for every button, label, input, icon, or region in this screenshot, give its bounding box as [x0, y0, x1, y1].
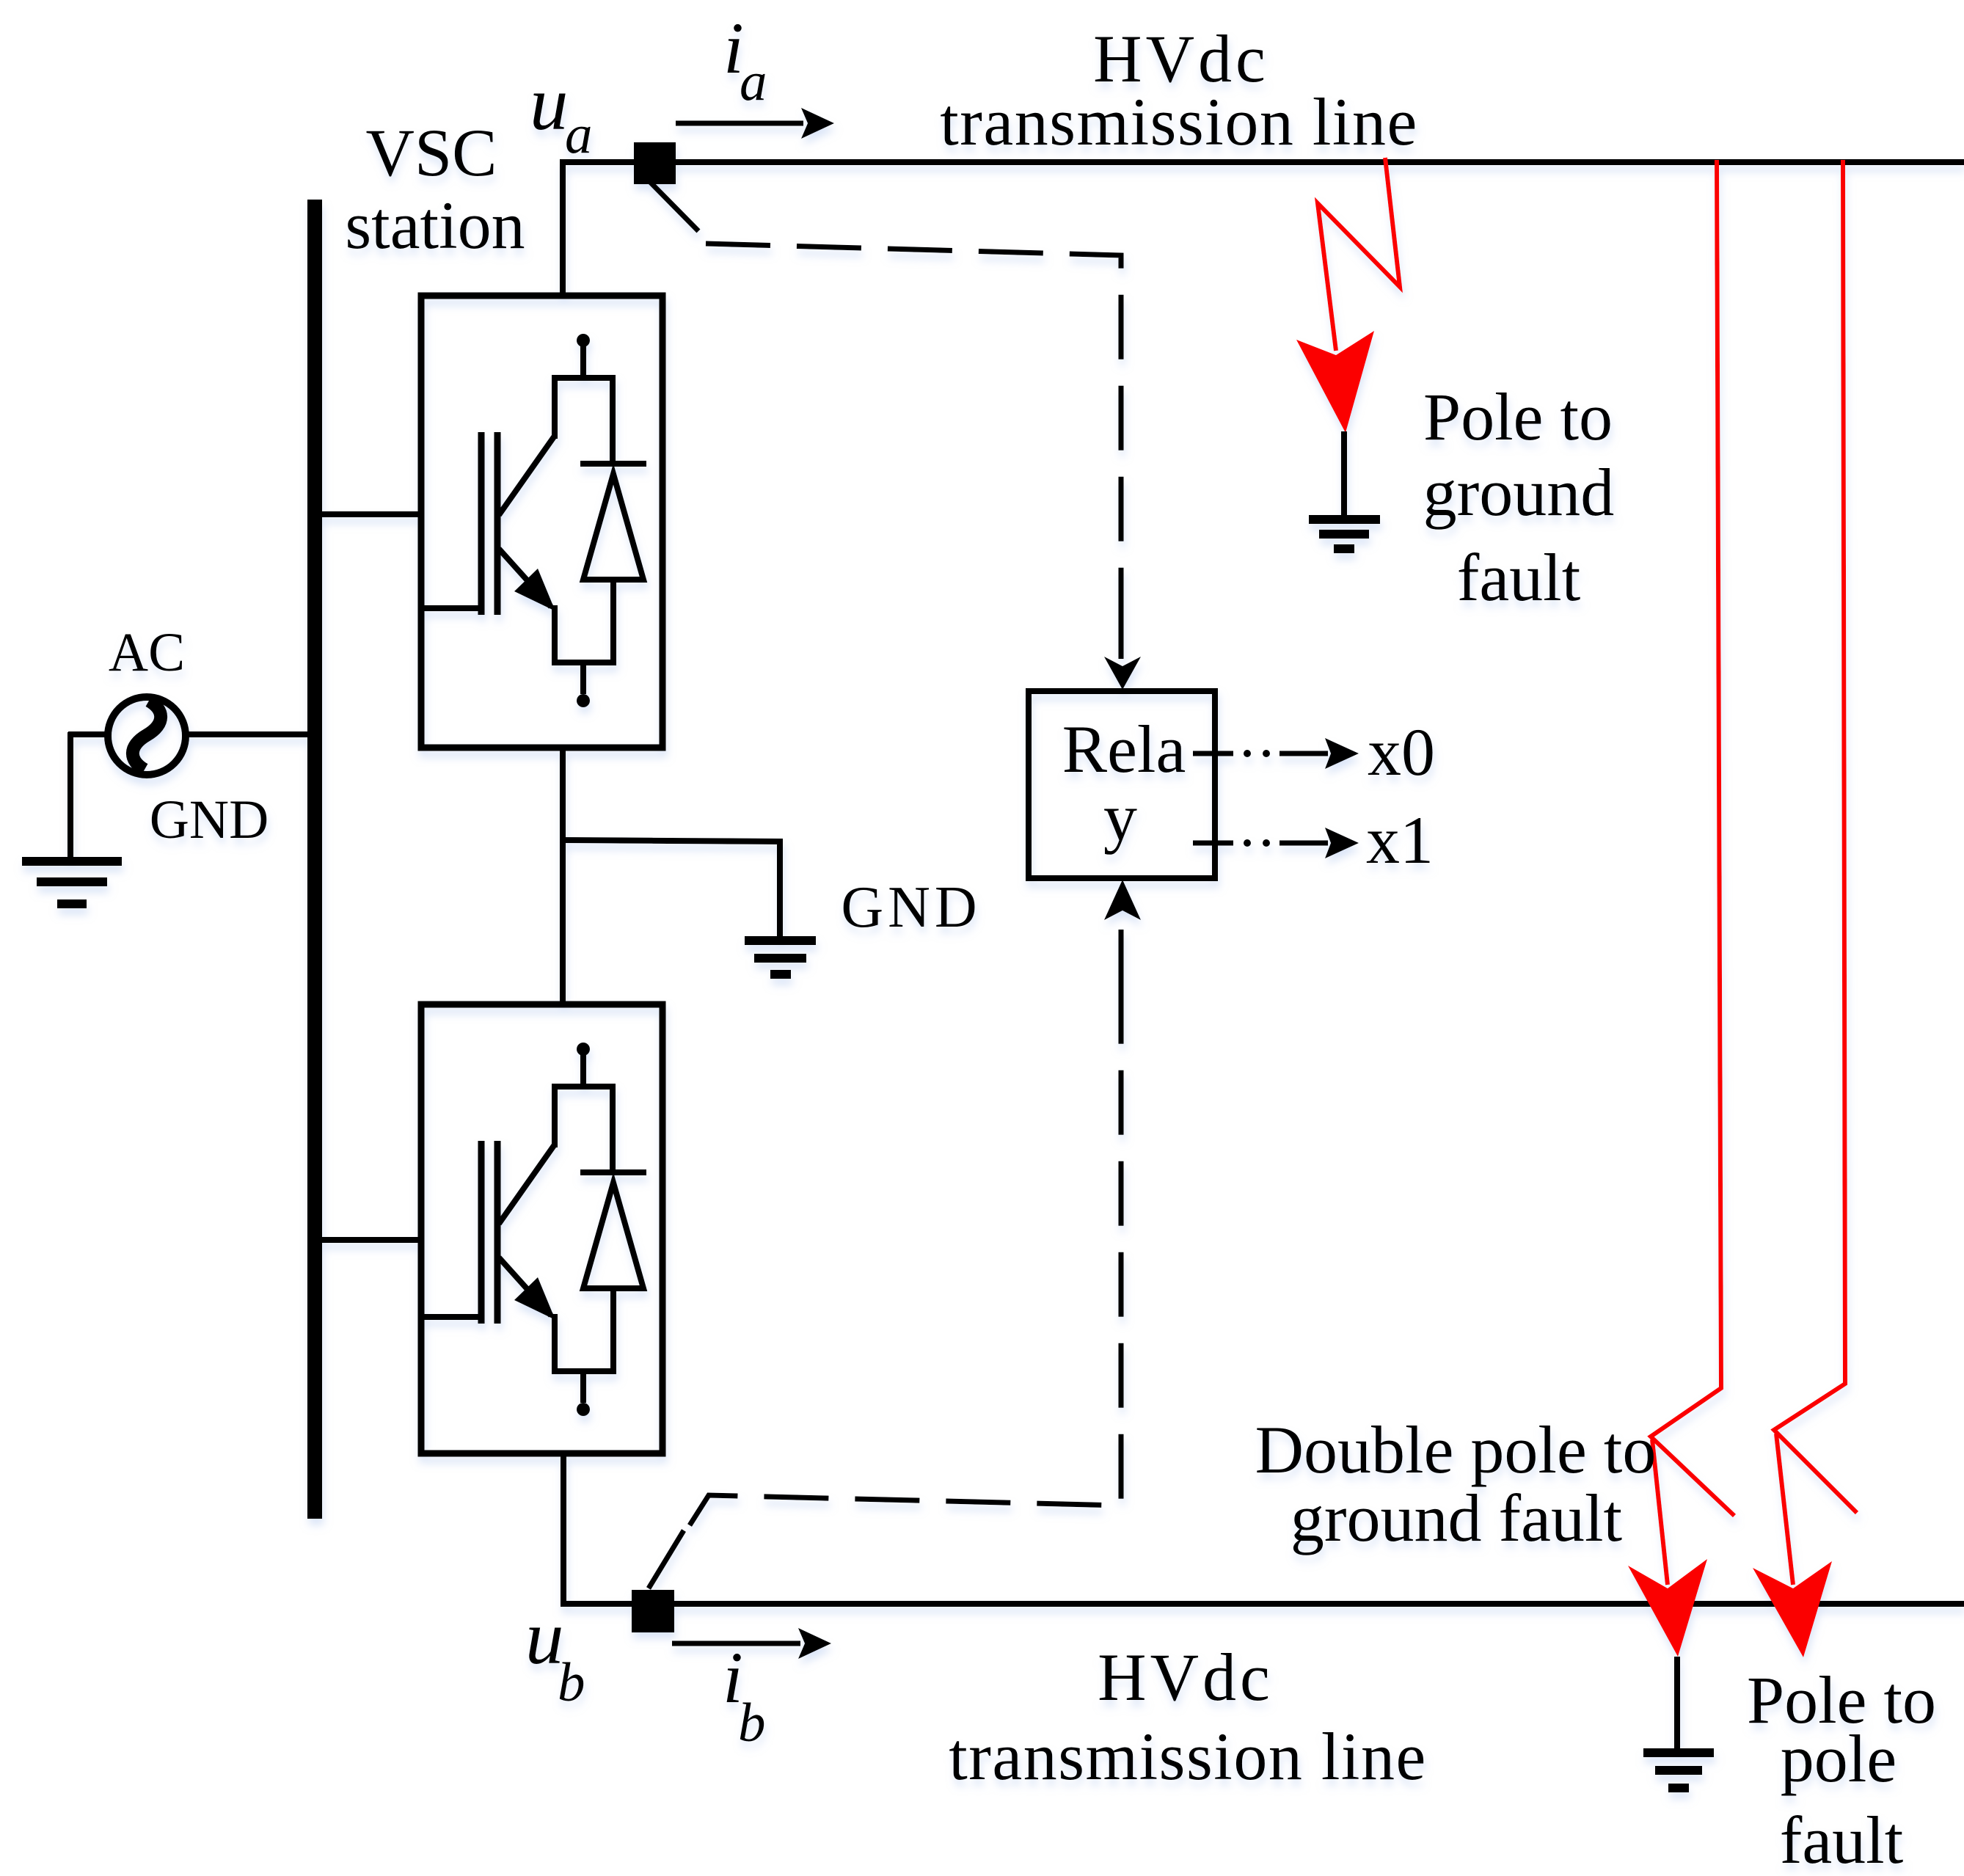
svg-text:x1: x1	[1366, 803, 1434, 877]
IGBT with diode upper	[423, 334, 646, 707]
svg-text:x0: x0	[1368, 715, 1435, 789]
AC source sine glyph	[133, 701, 161, 770]
wire relay bottom feed	[1119, 930, 1124, 1000]
svg-text:ground: ground	[1423, 455, 1615, 530]
svg-text:HVdc: HVdc	[1098, 1640, 1274, 1715]
dashed measuring link from ua to relay	[706, 244, 1121, 621]
arrowhead into relay bottom	[1104, 880, 1141, 920]
ground midpoint	[745, 936, 816, 979]
svg-text:GND: GND	[841, 875, 981, 940]
svg-text:ground fault: ground fault	[1291, 1481, 1623, 1555]
current ib arrow	[672, 1641, 800, 1646]
wire bus to lower converter	[321, 1237, 423, 1243]
fault bolt pole-to-ground upper	[1318, 158, 1400, 351]
converter box upper	[421, 296, 662, 748]
svg-text:y: y	[1103, 780, 1137, 855]
converter box lower	[421, 1004, 662, 1453]
svg-text:b: b	[558, 1652, 585, 1713]
svg-text:a: a	[740, 51, 767, 112]
node ub measurement square	[632, 1590, 674, 1632]
wire lower converter to node ub	[561, 1453, 566, 1604]
svg-text:AC: AC	[109, 622, 185, 683]
switch blade at node ub	[649, 1530, 684, 1588]
wire bus to upper converter	[321, 511, 423, 517]
wire midpoint between converters	[560, 748, 566, 1004]
svg-text:GND: GND	[150, 789, 269, 850]
bus bar	[307, 200, 322, 1519]
wire relay top feed	[1119, 621, 1124, 659]
HVdc transmission line top wire	[563, 159, 1964, 165]
svg-text:Rela: Rela	[1062, 712, 1186, 786]
HVdc transmission line bottom wire	[561, 1601, 1964, 1607]
fault line double-pole red vertical	[1651, 160, 1734, 1585]
svg-text:fault: fault	[1457, 540, 1581, 615]
svg-text:a: a	[565, 104, 593, 165]
ground double-pole fault	[1674, 1657, 1680, 1751]
node ua measurement square	[634, 142, 676, 184]
wire midpoint to ground tap	[563, 840, 780, 939]
ground AC source	[22, 857, 122, 908]
switch blade at node ua	[650, 182, 698, 231]
wire AC right lead to bus	[186, 731, 309, 737]
svg-text:u: u	[530, 60, 569, 146]
dashed measuring link from ub to relay	[690, 1000, 1121, 1525]
IGBT with diode lower	[423, 1043, 646, 1416]
svg-text:b: b	[738, 1693, 766, 1753]
current ia arrow	[676, 121, 803, 126]
svg-text:pole: pole	[1781, 1721, 1897, 1796]
svg-text:transmission line: transmission line	[949, 1719, 1427, 1794]
AC source circle	[108, 697, 186, 775]
ground pole-to-ground fault	[1341, 431, 1347, 519]
svg-text:fault: fault	[1780, 1803, 1904, 1876]
relay box	[1029, 691, 1215, 878]
svg-text:VSC: VSC	[366, 115, 497, 190]
svg-text:transmission line: transmission line	[940, 84, 1418, 159]
wire AC ground lead	[67, 732, 73, 860]
wire AC left lead	[68, 731, 108, 737]
svg-text:station: station	[345, 188, 525, 263]
fault line pole-to-pole red vertical	[1774, 160, 1857, 1585]
relay output x1 dash-dot arrow	[1193, 828, 1359, 858]
svg-text:Pole to: Pole to	[1423, 379, 1613, 454]
svg-text:Double pole to: Double pole to	[1255, 1412, 1657, 1487]
relay output x0 dash-dot arrow	[1193, 738, 1359, 769]
wire from node ua down to converter	[560, 159, 566, 299]
arrowhead into relay top	[1104, 657, 1141, 690]
